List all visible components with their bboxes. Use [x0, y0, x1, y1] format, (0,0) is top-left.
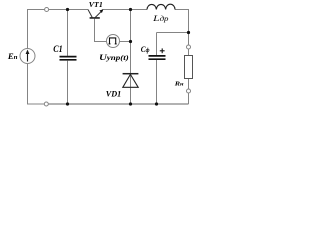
pulse source U circle: [107, 35, 120, 48]
wire top rail left segment: [28, 10, 45, 49]
svg-text:VD1: VD1: [106, 89, 122, 99]
capacitor Cf plates: [149, 56, 166, 59]
wire inductor out to right corner: [175, 10, 189, 33]
label plus Cf: [160, 48, 165, 53]
inductor Ldr: [147, 4, 175, 9]
diode VD1: [123, 74, 139, 88]
transistor VT1: [88, 9, 103, 18]
capacitor C1 plates: [60, 57, 77, 60]
wire load bottom: [188, 79, 190, 90]
terminal circle bottom input: [44, 102, 48, 106]
wire right branch to load: [188, 49, 190, 56]
svg-text:VT1: VT1: [89, 0, 103, 9]
terminal circle top input: [45, 8, 49, 12]
wire transistor right rail to inductor: [102, 9, 147, 11]
wire Cf lower lead: [156, 60, 158, 104]
svg-text:Uупр(t): Uупр(t): [99, 53, 129, 62]
wire Cf top horizontal: [157, 32, 189, 34]
pulse symbol: [109, 38, 117, 44]
wire C1 branch upper: [67, 10, 69, 56]
wire top rail mid segment: [49, 9, 89, 11]
wire base lead: [95, 19, 107, 42]
junction dot mid diode / pulse lead: [129, 40, 132, 43]
source Ep arrow: [26, 50, 30, 62]
junction dot bottom diode: [129, 102, 132, 105]
svg-text:C1: C1: [53, 44, 62, 54]
source Ep circle: [20, 49, 35, 64]
resistor Rn rectangle: [185, 56, 193, 79]
junction dot top C1: [66, 8, 69, 11]
wire load to rail: [188, 93, 190, 104]
terminal circle load top: [187, 45, 191, 49]
wire diode branch: [130, 10, 132, 105]
svg-text:Rн: Rн: [174, 80, 184, 87]
terminal circle load bottom: [187, 89, 191, 93]
junction dot right top corner: [187, 31, 190, 34]
wire right branch upper: [188, 33, 190, 46]
junction dot bottom C1: [66, 102, 69, 105]
wire pulse source right lead: [120, 41, 131, 43]
junction dot top diode: [129, 8, 132, 11]
wire left vertical lower: [28, 64, 45, 105]
wire C1 branch lower: [67, 61, 69, 104]
svg-text:Eп: Eп: [7, 52, 18, 61]
junction dot Cf bottom: [155, 102, 158, 105]
wire bottom rail: [48, 103, 188, 105]
wire Cf upper lead: [156, 33, 158, 56]
